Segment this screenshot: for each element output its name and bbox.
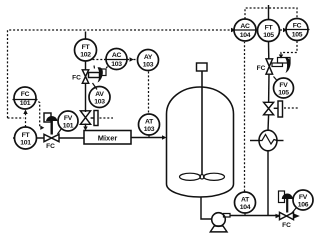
svg-text:FT: FT: [82, 44, 91, 51]
instrument FV101: [58, 111, 78, 131]
svg-text:101: 101: [63, 122, 74, 129]
svg-text:AC: AC: [240, 23, 250, 30]
signal FV101 to valve: [58, 129, 62, 135]
pipe heat exchanger to product line: [267, 151, 269, 216]
signal valve B to AV103: [93, 83, 98, 90]
agitator motor box: [197, 63, 208, 71]
mixer box: [84, 131, 131, 145]
svg-text:104: 104: [240, 32, 251, 39]
vessel body: [167, 87, 234, 197]
valve E side actuator box: [274, 107, 278, 109]
valve D body (FC): [266, 59, 273, 74]
svg-text:FC: FC: [72, 75, 81, 82]
svg-text:AC: AC: [112, 52, 122, 59]
signal dashed AC104 to FC105 cascade: [245, 8, 297, 19]
svg-text:101: 101: [20, 139, 31, 146]
valve FV101 body: [44, 134, 59, 141]
svg-text:FC: FC: [46, 143, 55, 150]
pipe feed A valve to mixer: [59, 137, 84, 139]
signal dashed FC101 to valve FV101: [35, 100, 44, 130]
svg-text:101: 101: [20, 100, 31, 107]
svg-text:106: 106: [298, 201, 309, 208]
svg-text:103: 103: [144, 126, 155, 133]
svg-text:FC: FC: [21, 91, 30, 98]
signal dashed stub from valve C: [100, 117, 114, 119]
valve FV101 actuator: [44, 113, 58, 135]
pipe feed A from left: [13, 137, 15, 139]
instrument FC101: [13, 87, 38, 109]
svg-text:103: 103: [111, 61, 122, 68]
instrument FC105: [285, 19, 310, 41]
pipe feed B into mixer with arrow: [83, 124, 87, 131]
svg-text:FV: FV: [64, 115, 73, 122]
pipe feed B FT102 to valve: [85, 61, 87, 70]
product out arrow: [294, 214, 300, 219]
pipe feed B valve to lower valve: [85, 83, 87, 112]
valve B actuator: [89, 66, 107, 83]
valve F product body: [280, 212, 294, 219]
pipe FT105 to valve D: [268, 42, 270, 59]
pipe vessel outlet to pump: [201, 198, 211, 220]
instrument FV105: [274, 78, 294, 98]
svg-text:FT: FT: [265, 24, 274, 31]
valve F actuator: [279, 191, 293, 213]
svg-text:105: 105: [292, 32, 303, 39]
valve E body: [264, 102, 274, 115]
valve C lower body: [80, 111, 90, 125]
instrument AY103: [138, 50, 159, 71]
pipe valve E to heat exchanger: [267, 115, 270, 131]
svg-text:FC: FC: [293, 23, 302, 30]
svg-text:103: 103: [143, 61, 154, 68]
instrument AV103: [89, 87, 110, 108]
instrument AT104: [235, 192, 256, 216]
instrument FT102: [75, 39, 97, 61]
valve D actuator: [272, 57, 291, 73]
pipe valve D to valve E: [268, 74, 270, 103]
instrument AT103: [139, 114, 160, 138]
signal dashed AC103 to AY103 with arrow: [130, 57, 138, 61]
instrument AC104: [233, 19, 258, 41]
signal dashed AY103 to AT103: [148, 72, 150, 114]
instrument AC103: [104, 49, 129, 70]
pump: [210, 213, 227, 232]
signal FV106 to valve F: [292, 208, 297, 214]
svg-text:FV: FV: [279, 82, 288, 89]
signal dashed FT102 to AC103: [93, 59, 106, 61]
svg-text:FV: FV: [299, 194, 308, 201]
heat exchanger: [250, 130, 284, 151]
valve B upper (FC) body: [82, 70, 88, 84]
instrument FT101: [15, 127, 37, 149]
instrument FT105: [258, 20, 280, 42]
svg-text:AT: AT: [241, 196, 250, 203]
impeller: [180, 173, 225, 180]
signal dashed feedforward top line to AC104: [8, 28, 237, 118]
signal dashed FT101 to FC101: [23, 110, 27, 128]
svg-text:FC: FC: [282, 222, 291, 229]
pipe product line: [224, 214, 231, 218]
svg-text:AT: AT: [145, 118, 154, 125]
signal dashed AT104 to AC104: [244, 42, 246, 192]
signal FV105 to valve D: [274, 77, 278, 81]
instrument FV106: [293, 190, 313, 210]
svg-text:Mixer: Mixer: [98, 134, 118, 143]
valve C side actuator box: [91, 117, 94, 119]
signal dashed AC103 to valve B actuator: [106, 67, 108, 70]
svg-text:102: 102: [80, 51, 91, 58]
pipe mixer to vessel: [131, 135, 167, 139]
svg-text:105: 105: [263, 32, 274, 39]
signal dashed FT105 to FC105: [280, 28, 287, 32]
svg-text:104: 104: [240, 204, 251, 211]
svg-text:FT: FT: [22, 132, 31, 139]
svg-text:AY: AY: [144, 54, 153, 61]
pipe feed B from top: [85, 32, 87, 40]
svg-text:105: 105: [278, 89, 289, 96]
signal dashed FC105 to valve D: [279, 41, 297, 59]
svg-text:AV: AV: [95, 91, 104, 98]
svg-text:FC: FC: [257, 65, 266, 72]
svg-text:103: 103: [94, 98, 105, 105]
pipe cooling water from top: [268, 5, 270, 20]
agitator shaft: [201, 71, 203, 175]
signal dashed stub from valve E: [284, 107, 299, 109]
pipe feed A to valve: [37, 137, 45, 139]
